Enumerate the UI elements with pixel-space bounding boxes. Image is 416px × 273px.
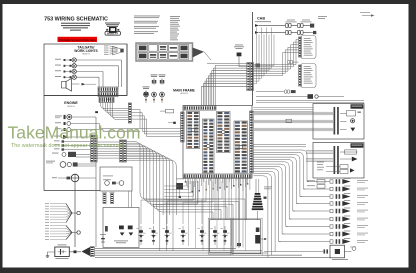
cab accessory box upper <box>299 36 317 59</box>
central harness bundle left corners <box>202 66 247 106</box>
bobcat logo block <box>105 23 121 36</box>
bottom power bus <box>95 249 330 258</box>
svg-text:MAIN FRAME: MAIN FRAME <box>173 89 195 93</box>
tailgate inline connector bars <box>128 103 131 123</box>
flasher component <box>176 178 184 198</box>
bottom center box right <box>232 220 261 254</box>
ignition terminal stack <box>252 179 272 220</box>
panel box riser <box>129 191 132 208</box>
main frame right cascade <box>253 119 330 257</box>
right box B rows <box>306 146 358 174</box>
battery ground wire <box>46 252 55 258</box>
page frame top border <box>0 0 416 4</box>
title 753 WIRING SCHEMATIC <box>44 17 108 23</box>
main frame label <box>173 89 195 96</box>
svg-text:WORK LIGHTS: WORK LIGHTS <box>74 49 98 53</box>
main frame pin column 4 <box>234 121 248 173</box>
mainframe inline connector <box>247 63 254 91</box>
wires into upper accessory box <box>253 40 298 76</box>
title serial-number lines <box>61 23 90 31</box>
panel connector strip <box>120 140 127 162</box>
engine ground fan upper <box>45 203 80 223</box>
panel harness curved fan <box>127 142 246 251</box>
engine inline connector strip <box>91 135 98 162</box>
oil pressure stub component <box>100 234 106 242</box>
svg-text:The watermark does not appear: The watermark does not appear in the man… <box>11 143 124 149</box>
right box A rows <box>254 107 361 135</box>
tailgate to main frame link wires <box>132 110 182 137</box>
tailgate/work lights box <box>44 44 127 96</box>
instrument panel gauges <box>103 176 124 186</box>
main frame fanout wires <box>141 178 250 250</box>
bottom right box components <box>237 228 266 247</box>
fuse pill component <box>160 109 176 124</box>
main frame pin column 2 <box>203 119 215 173</box>
cab accessory box lower <box>299 64 317 88</box>
tailgate lamps <box>55 58 122 80</box>
tailgate right connector fan <box>104 46 124 56</box>
svg-text:BOBCAT: BOBCAT <box>107 31 118 35</box>
svg-text:Printable Version Click Here: Printable Version Click Here <box>59 38 97 42</box>
tailgate lower connector strip <box>99 97 114 103</box>
right connector stub rows <box>264 178 368 260</box>
main frame right connector strip <box>250 111 254 173</box>
watermark subtitle <box>11 143 124 149</box>
printable version red box <box>58 37 98 42</box>
box A extra feed lines <box>253 108 313 112</box>
watermark TakeManual.com <box>8 122 141 142</box>
cab section divider <box>252 12 254 106</box>
notes column 1 <box>134 16 160 34</box>
right box B (rear harness 2) <box>313 143 364 179</box>
main frame bottom connector strip <box>184 174 251 178</box>
engine title <box>64 101 78 108</box>
svg-text:CAB: CAB <box>257 17 265 21</box>
wire pair connector mid <box>288 60 299 63</box>
engine box outline <box>44 44 127 191</box>
cab harness rows <box>255 12 375 34</box>
main frame box <box>183 106 252 179</box>
bottom box extra outlines <box>208 218 262 255</box>
cab title <box>255 17 271 22</box>
svg-text:TakeManual.com: TakeManual.com <box>8 122 141 142</box>
cab riser bundle <box>254 28 274 84</box>
engine sensors and glow plugs <box>52 115 103 158</box>
legend fan feed lines <box>207 60 247 66</box>
svg-text:ENGINE: ENGINE <box>64 101 78 105</box>
panel connector strips below <box>102 192 115 204</box>
main frame fuse columns <box>143 75 166 104</box>
engine section divider <box>44 95 127 97</box>
cab lower wires row <box>256 90 364 103</box>
relay cluster row <box>136 226 229 245</box>
engine alternator and starter <box>46 161 96 247</box>
front harness box <box>103 208 139 248</box>
cab lower connector blob <box>256 64 261 68</box>
tailgate lamp drop wires <box>99 60 122 87</box>
front harness relays <box>105 226 133 244</box>
legend connector grid <box>136 43 211 61</box>
bottom center box left <box>210 220 232 253</box>
main frame pin column 1 <box>187 112 200 149</box>
page frame bottom border <box>0 268 416 273</box>
battery positive cable <box>69 247 94 257</box>
battery box <box>55 245 70 260</box>
page frame right border <box>409 0 416 273</box>
tailgate bottom connector block <box>98 87 118 101</box>
page frame left border <box>0 0 3 273</box>
right box A (rear harness) <box>313 104 364 140</box>
svg-text:753 WIRING SCHEMATIC: 753 WIRING SCHEMATIC <box>44 17 108 23</box>
main frame left edge connector strip <box>181 112 184 142</box>
main frame pin column 3 <box>217 112 231 153</box>
tailgate speaker/alarm <box>62 79 97 92</box>
tailgate box title <box>74 45 98 55</box>
cab fuel sender <box>234 45 247 67</box>
pill components below box B <box>307 180 325 189</box>
instrument panel box <box>100 167 132 191</box>
engine to panel bundle <box>97 142 119 158</box>
tailgate lower fan <box>95 103 128 120</box>
engine harness vertical runs <box>96 117 140 247</box>
notes column 2 <box>170 16 180 40</box>
engine ground fan lower <box>45 225 80 240</box>
main frame top connector strip <box>184 106 216 110</box>
